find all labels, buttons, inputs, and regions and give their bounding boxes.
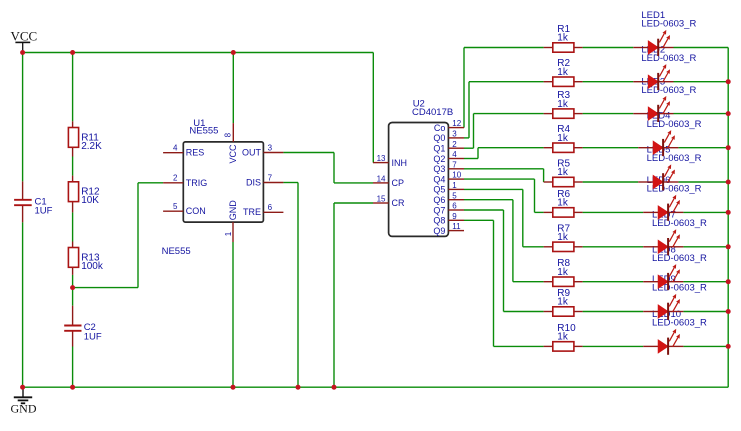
- svg-text:Q6: Q6: [433, 195, 445, 205]
- svg-text:Q4: Q4: [433, 174, 445, 184]
- svg-text:TRIG: TRIG: [186, 178, 208, 188]
- svg-text:12: 12: [452, 119, 461, 128]
- svg-text:4: 4: [452, 150, 457, 159]
- svg-text:Q3: Q3: [433, 164, 445, 174]
- svg-text:Q8: Q8: [433, 216, 445, 226]
- svg-text:3: 3: [268, 143, 273, 152]
- svg-text:INH: INH: [392, 158, 408, 168]
- svg-text:7: 7: [268, 173, 273, 182]
- svg-text:CD4017B: CD4017B: [412, 107, 453, 118]
- svg-text:3: 3: [452, 130, 457, 139]
- svg-text:2.2K: 2.2K: [81, 141, 102, 152]
- svg-text:DIS: DIS: [246, 177, 261, 187]
- svg-text:5: 5: [452, 191, 457, 200]
- svg-text:10K: 10K: [81, 195, 99, 206]
- svg-text:6: 6: [452, 202, 457, 211]
- svg-text:7: 7: [452, 160, 457, 169]
- svg-text:NE555: NE555: [189, 125, 218, 136]
- svg-text:LED-0603_R: LED-0603_R: [641, 19, 696, 30]
- svg-text:6: 6: [268, 203, 273, 212]
- svg-text:Q0: Q0: [433, 133, 445, 143]
- svg-text:TRE: TRE: [243, 207, 261, 217]
- svg-text:CP: CP: [392, 178, 405, 188]
- svg-text:14: 14: [377, 174, 386, 183]
- svg-text:1: 1: [224, 231, 233, 236]
- svg-text:VCC: VCC: [228, 144, 238, 164]
- svg-text:NE555: NE555: [162, 246, 191, 257]
- svg-text:8: 8: [223, 132, 232, 137]
- svg-text:Q1: Q1: [433, 144, 445, 154]
- svg-text:2: 2: [173, 174, 178, 183]
- svg-text:11: 11: [452, 222, 461, 231]
- svg-text:1: 1: [452, 181, 457, 190]
- svg-text:RES: RES: [186, 148, 205, 158]
- svg-text:CR: CR: [392, 198, 405, 208]
- svg-text:4: 4: [173, 144, 178, 153]
- svg-text:1UF: 1UF: [84, 332, 102, 343]
- svg-text:9: 9: [452, 212, 457, 221]
- svg-text:CON: CON: [186, 206, 206, 216]
- svg-text:15: 15: [377, 195, 386, 204]
- svg-text:13: 13: [377, 154, 386, 163]
- svg-text:LED-0603_R: LED-0603_R: [652, 318, 707, 329]
- svg-text:2: 2: [452, 140, 457, 149]
- svg-text:LED-0603_R: LED-0603_R: [652, 218, 707, 229]
- svg-text:10: 10: [452, 171, 461, 180]
- svg-text:Q2: Q2: [433, 154, 445, 164]
- svg-text:Co: Co: [434, 123, 446, 133]
- svg-text:LED-0603_R: LED-0603_R: [652, 253, 707, 264]
- svg-text:5: 5: [173, 202, 178, 211]
- svg-text:1UF: 1UF: [35, 206, 53, 217]
- svg-text:VCC: VCC: [11, 28, 38, 43]
- svg-text:100k: 100k: [81, 261, 104, 272]
- svg-text:Q5: Q5: [433, 185, 445, 195]
- svg-text:Q7: Q7: [433, 205, 445, 215]
- svg-text:LED-0603_R: LED-0603_R: [641, 53, 696, 64]
- svg-text:LED-0603_R: LED-0603_R: [647, 153, 702, 164]
- svg-text:Q9: Q9: [433, 226, 445, 236]
- svg-text:LED-0603_R: LED-0603_R: [647, 119, 702, 130]
- svg-text:OUT: OUT: [242, 147, 262, 157]
- svg-text:GND: GND: [228, 200, 238, 221]
